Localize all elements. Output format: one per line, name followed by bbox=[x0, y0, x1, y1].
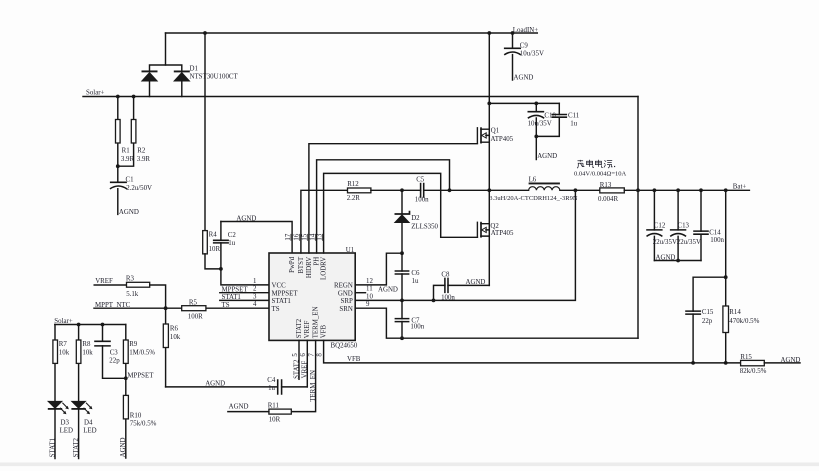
svg-text:VFB: VFB bbox=[347, 356, 361, 363]
wire main vertical Q1 drain / Q2 chain bbox=[488, 33, 490, 285]
op-amp U1 BQ24650 charger IC body bbox=[269, 253, 355, 340]
svg-text:LODRV: LODRV bbox=[321, 257, 328, 280]
wire pin 13 LODRV to Q2 gate bbox=[324, 173, 478, 253]
svg-text:1u: 1u bbox=[570, 121, 577, 128]
svg-text:HIDRV: HIDRV bbox=[306, 257, 313, 278]
wire pin 12 REGN jog to D2/C6 node bbox=[355, 253, 402, 285]
junction C15/VFB bbox=[691, 361, 695, 365]
svg-text:TERM_EN: TERM_EN bbox=[310, 370, 317, 402]
wire pin 16 BTST riser to R12 bbox=[301, 190, 348, 253]
svg-text:AGND: AGND bbox=[119, 209, 139, 216]
pin number 9 bbox=[366, 301, 370, 308]
svg-text:VREF: VREF bbox=[95, 278, 113, 285]
svg-text:10R: 10R bbox=[269, 416, 281, 423]
capacitor C6 (1u) bbox=[395, 253, 420, 300]
pin number 7 (rotated) bbox=[308, 353, 315, 357]
node Solar+ label bbox=[86, 90, 105, 97]
svg-text:22p: 22p bbox=[702, 318, 713, 325]
svg-text:STAT1: STAT1 bbox=[49, 437, 56, 457]
resistor R6 bbox=[163, 308, 180, 387]
wire Solar+ divider line bbox=[55, 324, 126, 326]
node AGND label (R15) bbox=[781, 357, 801, 364]
svg-text:R11: R11 bbox=[268, 403, 280, 410]
svg-text:C6: C6 bbox=[411, 270, 420, 277]
svg-text:D3: D3 bbox=[61, 420, 70, 427]
charge current formula bbox=[574, 170, 626, 177]
svg-text:2.2R: 2.2R bbox=[347, 195, 361, 202]
wire AGND net to pin 17 bbox=[221, 222, 292, 254]
svg-text:Q1: Q1 bbox=[491, 127, 500, 134]
svg-text:ZLLS350: ZLLS350 bbox=[411, 223, 438, 230]
pin 6 VREF name (rotated) bbox=[304, 321, 311, 339]
junction Bat+/SRN riser bbox=[636, 188, 640, 192]
svg-text:3.9R: 3.9R bbox=[137, 156, 151, 163]
node STAT1 label (rotated) bbox=[49, 437, 56, 457]
wire VCC junction to pin 1 bbox=[221, 269, 269, 285]
junction SRP sense at switch line bbox=[574, 188, 578, 192]
wire pin 10 SRP sense line bbox=[355, 190, 575, 300]
svg-text:AGND: AGND bbox=[236, 215, 256, 222]
LED D3 bbox=[48, 401, 73, 434]
LED D4 bbox=[71, 401, 96, 434]
svg-text:82k/0.5%: 82k/0.5% bbox=[740, 368, 767, 375]
wire pin 15 HIDRV to Q1 gate bbox=[309, 144, 478, 253]
pin number 16 (rotated) bbox=[294, 233, 301, 241]
capacitor C11 (1u) bbox=[536, 103, 579, 136]
pin number 1 bbox=[253, 278, 257, 285]
pin 14 PH name (rotated) bbox=[314, 257, 321, 266]
resistor R1 bbox=[116, 97, 135, 167]
svg-text:22u/35V: 22u/35V bbox=[677, 239, 701, 246]
junction Bat+/C14 bbox=[699, 188, 703, 192]
svg-text:AGND: AGND bbox=[656, 254, 676, 261]
svg-text:9: 9 bbox=[366, 301, 370, 308]
resistor R3 bbox=[126, 275, 150, 298]
svg-text:REGN: REGN bbox=[334, 283, 353, 290]
junction Bat+/R14 riser bbox=[724, 188, 728, 192]
capacitor C2 (1u) bbox=[213, 222, 236, 269]
wire D3 cathode to STAT1 bbox=[54, 409, 56, 458]
svg-text:2: 2 bbox=[253, 286, 257, 293]
diode D1 (dual NTST30U100CT), half A bbox=[142, 71, 158, 81]
svg-text:R4: R4 bbox=[209, 232, 218, 239]
svg-text:10k: 10k bbox=[170, 334, 181, 341]
node AGND label (Q2 source / C8) bbox=[466, 279, 486, 286]
wire VREF to R3 bbox=[94, 284, 126, 286]
resistor R10 (75k/0.5%) bbox=[123, 378, 156, 458]
svg-text:0.004R: 0.004R bbox=[598, 196, 619, 203]
svg-text:BTST: BTST bbox=[298, 256, 305, 274]
junction divider/C3 bbox=[101, 323, 105, 327]
svg-text:1: 1 bbox=[253, 278, 257, 285]
resistor R4 bbox=[203, 231, 221, 254]
wire C10/C11 ground stub bbox=[535, 136, 537, 159]
svg-text:5: 5 bbox=[292, 353, 299, 357]
pin 13 LODRV name (rotated) bbox=[321, 257, 328, 280]
svg-text:VFB: VFB bbox=[321, 324, 328, 338]
node VREF label bbox=[95, 278, 113, 285]
svg-text:AGND: AGND bbox=[205, 381, 225, 388]
svg-text:U1: U1 bbox=[346, 247, 355, 254]
svg-text:VCC: VCC bbox=[272, 283, 287, 290]
svg-text:8: 8 bbox=[316, 353, 323, 357]
junction R4/C2/VCC bbox=[219, 267, 223, 271]
wire Solar+ drop / SRN riser at x=638 bbox=[637, 97, 639, 339]
svg-text:6: 6 bbox=[300, 353, 307, 357]
charge current annotation (Chinese) bbox=[577, 160, 615, 168]
diode D2 ZLLS350 bbox=[395, 190, 439, 253]
resistor R7 (10k) bbox=[53, 325, 70, 402]
wire C5 to PH switch node and L6 bbox=[424, 189, 529, 191]
node AGND label (pin 11) bbox=[378, 286, 398, 293]
wire Solar+ rail bbox=[83, 96, 638, 98]
svg-text:3: 3 bbox=[253, 293, 257, 300]
pin 2 MPPSET name bbox=[272, 290, 299, 297]
svg-text:TS: TS bbox=[272, 306, 280, 313]
pin number 10 bbox=[366, 293, 373, 300]
svg-text:7: 7 bbox=[308, 353, 315, 357]
node VFB label bbox=[347, 356, 361, 363]
svg-text:1u: 1u bbox=[268, 385, 275, 392]
resistor R14 (470k/0.5%) bbox=[723, 306, 760, 363]
svg-text:C13: C13 bbox=[678, 222, 690, 229]
svg-text:C9: C9 bbox=[520, 42, 529, 49]
svg-text:AGND: AGND bbox=[537, 153, 557, 160]
pin number 4 bbox=[253, 301, 257, 308]
pin 5 STAT2 name (rotated) bbox=[296, 318, 303, 338]
junction input node bbox=[487, 102, 491, 106]
capacitor C9 (polarized 10u/35V) bbox=[504, 33, 544, 80]
svg-text:LED: LED bbox=[83, 427, 96, 434]
svg-text:SRN: SRN bbox=[339, 306, 352, 313]
svg-text:3.9R: 3.9R bbox=[121, 156, 135, 163]
node AGND label (R6/C4 line) bbox=[205, 381, 225, 388]
svg-text:AGND: AGND bbox=[120, 437, 127, 457]
svg-text:STAT2: STAT2 bbox=[296, 318, 303, 338]
svg-text:STAT1: STAT1 bbox=[222, 294, 242, 301]
capacitor C7 (100n) bbox=[395, 300, 425, 338]
node AGND label (R10, rotated) bbox=[120, 437, 127, 457]
svg-text:100n: 100n bbox=[410, 324, 424, 331]
junction R14/VFB bbox=[724, 361, 728, 365]
svg-text:R3: R3 bbox=[126, 275, 135, 282]
svg-text:470k/0.5%: 470k/0.5% bbox=[729, 318, 759, 325]
svg-text:MPPSET: MPPSET bbox=[222, 287, 249, 294]
svg-text:AGND: AGND bbox=[514, 75, 534, 82]
pin 7 TERM_EN name (rotated) bbox=[313, 307, 320, 339]
wire top rail (D1 cathode common to LoadIN+) bbox=[166, 32, 538, 34]
svg-text:100n: 100n bbox=[415, 197, 429, 204]
junction Solar+/R1 bbox=[116, 95, 120, 99]
svg-text:D1: D1 bbox=[190, 66, 199, 73]
pin 8 VFB name (rotated) bbox=[321, 324, 328, 338]
pin 1 VCC name bbox=[272, 283, 287, 290]
pin number 13 (rotated) bbox=[316, 233, 323, 241]
wire R4 bottom to VCC junction bbox=[205, 254, 221, 269]
wire pin 7 TERM_EN to R11 bbox=[291, 340, 315, 411]
pin 4 TS name bbox=[272, 306, 280, 313]
pin number 11 bbox=[366, 286, 373, 293]
resistor R2 bbox=[118, 97, 151, 167]
pin 3 STAT1 name bbox=[272, 298, 292, 305]
pin number 3 bbox=[253, 293, 257, 300]
resistor R5 bbox=[182, 300, 206, 321]
wire pin 9 SRN jog bbox=[355, 308, 638, 338]
svg-text:VREF: VREF bbox=[302, 361, 309, 379]
svg-text:SRP: SRP bbox=[341, 298, 353, 305]
junction Bat+/C12 bbox=[653, 188, 657, 192]
node AGND label (C10/C11) bbox=[537, 153, 557, 160]
svg-text:AGND: AGND bbox=[229, 404, 249, 411]
capacitor C4 (1u) bbox=[267, 377, 281, 395]
junction R14/C15 top bbox=[724, 275, 728, 279]
svg-text:R13: R13 bbox=[600, 182, 612, 189]
svg-text:C8: C8 bbox=[441, 272, 450, 279]
junction top rail / input node riser bbox=[487, 31, 491, 35]
node Bat+ label bbox=[733, 183, 747, 190]
svg-text:Solar+: Solar+ bbox=[86, 90, 105, 97]
svg-text:1u: 1u bbox=[228, 240, 235, 247]
wire Bat+ riser to R14/C15 bbox=[725, 190, 727, 306]
junction Q1 source / Q2 drain on switch node bbox=[487, 188, 491, 192]
svg-text:5.1k: 5.1k bbox=[126, 291, 139, 298]
svg-text:C10: C10 bbox=[544, 113, 556, 120]
wire AGND bus under C12-C14 bbox=[654, 260, 701, 262]
capacitor C13 (polarized 22u/35V) bbox=[670, 190, 701, 260]
node AGND (below C1) bbox=[119, 209, 139, 216]
junction C10 top bbox=[534, 102, 538, 106]
pin 15 HIDRV name (rotated) bbox=[306, 257, 313, 278]
wire pin 6 VREF to C4 bbox=[306, 340, 308, 387]
svg-text:C11: C11 bbox=[568, 112, 580, 119]
resistor R8 (10k) bbox=[76, 325, 93, 402]
svg-text:22p: 22p bbox=[109, 357, 120, 364]
svg-text:11: 11 bbox=[366, 286, 373, 293]
transistor Q1 ATP405 bbox=[477, 127, 513, 144]
node AGND label (pin17 wire) bbox=[236, 215, 256, 222]
capacitor C3 (22p) bbox=[94, 325, 126, 379]
node MPPT_NTC label bbox=[95, 302, 131, 309]
pin number 8 (rotated) bbox=[316, 353, 323, 357]
svg-text:TERM_EN: TERM_EN bbox=[313, 307, 320, 339]
svg-text:100n: 100n bbox=[441, 294, 455, 301]
junction REGN/D2/C6 bbox=[400, 251, 404, 255]
svg-text:R12: R12 bbox=[347, 181, 359, 188]
junction divider/R8 bbox=[77, 323, 81, 327]
wire R15 to AGND stub bbox=[764, 362, 800, 364]
svg-text:ATP405: ATP405 bbox=[491, 230, 514, 237]
svg-text:10R: 10R bbox=[209, 246, 221, 253]
svg-text:Bat+: Bat+ bbox=[733, 183, 747, 190]
wire MPPT_NTC line bbox=[94, 307, 269, 309]
wire pin 8 VFB line bbox=[324, 340, 741, 363]
svg-text:R14: R14 bbox=[729, 309, 741, 316]
svg-text:C2: C2 bbox=[228, 232, 237, 239]
svg-text:LED: LED bbox=[60, 427, 73, 434]
svg-text:C15: C15 bbox=[702, 309, 714, 316]
transistor Q2 ATP405 bbox=[477, 222, 514, 238]
svg-text:AGND: AGND bbox=[466, 279, 486, 286]
svg-text:10u/35V: 10u/35V bbox=[528, 121, 552, 128]
svg-text:22u/35V: 22u/35V bbox=[653, 239, 677, 246]
svg-text:R1: R1 bbox=[122, 148, 131, 155]
svg-text:L6: L6 bbox=[529, 176, 537, 183]
capacitor C10 (polarized 10u/35V) bbox=[528, 103, 557, 136]
svg-text:R7: R7 bbox=[59, 341, 68, 348]
svg-text:PwPd: PwPd bbox=[289, 256, 296, 273]
svg-text:C14: C14 bbox=[709, 229, 721, 236]
svg-text:R9: R9 bbox=[129, 341, 138, 348]
resistor R12 bbox=[347, 181, 371, 202]
node Solar+ label (divider) bbox=[54, 318, 73, 325]
inductor L6 bbox=[489, 176, 578, 202]
wire R3 right down to MPPT node bbox=[150, 285, 166, 308]
junction top rail / R4 riser bbox=[203, 31, 207, 35]
wire MPPSET stub pin 2 bbox=[220, 292, 269, 294]
svg-text:PH: PH bbox=[314, 257, 321, 266]
svg-text:MPPSET: MPPSET bbox=[272, 290, 299, 297]
junction Solar+/R2 bbox=[132, 95, 136, 99]
svg-text:R6: R6 bbox=[170, 325, 179, 332]
wire input node line to C10/C11 bbox=[489, 102, 559, 104]
node STAT2 label (rotated) bbox=[73, 437, 80, 457]
svg-text:R2: R2 bbox=[137, 148, 146, 155]
svg-text:R5: R5 bbox=[189, 300, 198, 307]
svg-text:C5: C5 bbox=[416, 176, 425, 183]
junction R3/R6/MPPT line bbox=[164, 306, 168, 310]
junction C8/SRP bbox=[432, 299, 436, 303]
wire D1 cathode bridge bbox=[150, 65, 182, 71]
pin number 12 bbox=[366, 278, 373, 285]
svg-text:D2: D2 bbox=[411, 215, 420, 222]
pin number 14 (rotated) bbox=[309, 233, 316, 241]
svg-text:3.3uH/20A-CTCDRH124_-3R9N: 3.3uH/20A-CTCDRH124_-3R9N bbox=[489, 195, 578, 202]
junction MPPSET node bbox=[124, 376, 128, 380]
junction C13/AGND bus bbox=[676, 259, 680, 263]
resistor R13 (0.004R sense) bbox=[598, 182, 624, 203]
junction PH jog / switch node bbox=[448, 188, 452, 192]
diode D1 half B bbox=[174, 71, 190, 81]
svg-text:AGND: AGND bbox=[378, 286, 398, 293]
capacitor C1 (polarized 2.2u/50V) bbox=[110, 166, 152, 214]
junction R1/R2/C1 bbox=[116, 164, 120, 168]
wire AGND / C4 line bbox=[166, 386, 308, 388]
node AGND label (R11) bbox=[229, 404, 249, 411]
svg-text:10u/35V: 10u/35V bbox=[520, 50, 544, 57]
svg-text:VREF: VREF bbox=[304, 321, 311, 339]
junction Bat+/C13 bbox=[676, 188, 680, 192]
svg-text:10: 10 bbox=[366, 293, 373, 300]
svg-text:BQ24650: BQ24650 bbox=[331, 342, 358, 349]
svg-text:C4: C4 bbox=[267, 377, 276, 384]
svg-text:1u: 1u bbox=[412, 278, 419, 285]
bottom window edge strip bbox=[0, 463, 819, 467]
wire C15 branch top bbox=[693, 277, 726, 311]
wire vertical rail down to D1 common cathode bridge bbox=[165, 33, 167, 65]
pin number 17 (rotated) bbox=[285, 233, 292, 241]
resistor R11 (10R) bbox=[268, 403, 292, 424]
svg-text:2.2u/50V: 2.2u/50V bbox=[126, 185, 152, 192]
wire R12 to C5 bbox=[371, 189, 421, 191]
node VREF label (rotated) bbox=[302, 361, 309, 379]
junction C10/C11 bottom bbox=[534, 135, 538, 139]
pin 16 BTST name (rotated) bbox=[298, 256, 305, 274]
wire D4 cathode to STAT2 bbox=[78, 409, 80, 458]
svg-text:ATP405: ATP405 bbox=[491, 136, 514, 143]
pin 17 PwPd name (rotated) bbox=[289, 256, 296, 273]
svg-text:4: 4 bbox=[253, 301, 257, 308]
junction C9 tap bbox=[511, 31, 515, 35]
node STAT1 label bbox=[222, 294, 242, 301]
svg-text:100R: 100R bbox=[188, 313, 203, 320]
node MPPSET label bbox=[222, 287, 249, 294]
pin number 5 (rotated) bbox=[292, 353, 299, 357]
node TS label bbox=[222, 302, 230, 309]
pin 9 SRN name bbox=[339, 306, 352, 313]
svg-text:R15: R15 bbox=[740, 354, 752, 361]
svg-text:C3: C3 bbox=[110, 349, 119, 356]
svg-text:C12: C12 bbox=[654, 222, 666, 229]
node TERM_EN label (rotated) bbox=[310, 370, 317, 402]
wire D1B anode to Solar+ rail bbox=[181, 81, 183, 96]
wire D1A anode to Solar+ rail bbox=[149, 81, 151, 96]
node AGND label (C9) bbox=[514, 75, 534, 82]
wire STAT1 stub pin 3 bbox=[220, 299, 269, 301]
svg-text:NTST30U100CT: NTST30U100CT bbox=[190, 74, 239, 81]
resistor R15 (82k/0.5%) bbox=[740, 354, 767, 375]
svg-text:Q2: Q2 bbox=[490, 223, 499, 230]
node STAT2 label (rotated) bbox=[293, 359, 300, 379]
svg-text:75k/0.5%: 75k/0.5% bbox=[130, 421, 157, 428]
pin 10 SRP name bbox=[341, 298, 353, 305]
svg-text:C1: C1 bbox=[126, 177, 135, 184]
capacitor C14 (100n) bbox=[693, 190, 724, 260]
wire pin 14 PH jog to switch node bbox=[317, 160, 450, 253]
junction C7/SRN bbox=[400, 336, 404, 340]
svg-text:10k: 10k bbox=[82, 349, 93, 356]
svg-text:D4: D4 bbox=[84, 420, 93, 427]
svg-text:STAT2: STAT2 bbox=[293, 359, 300, 379]
svg-text:STAT2: STAT2 bbox=[73, 437, 80, 457]
wire R13 to Bat+ bbox=[624, 189, 749, 191]
resistor R9 (1M/0.5%) bbox=[123, 325, 155, 379]
pin 11 GND name bbox=[338, 290, 353, 297]
pin number 6 (rotated) bbox=[300, 353, 307, 357]
svg-text:MPPSET: MPPSET bbox=[127, 373, 154, 380]
wire R11 to AGND stub bbox=[228, 411, 269, 413]
svg-text:GND: GND bbox=[338, 290, 353, 297]
capacitor C12 (polarized 22u/35V) bbox=[646, 190, 677, 260]
wire riser from top rail down to R4 bbox=[204, 33, 206, 231]
svg-text:R8: R8 bbox=[82, 341, 91, 348]
wire L6 to R13 bbox=[560, 189, 600, 191]
svg-text:100n: 100n bbox=[710, 237, 724, 244]
svg-text:AGND: AGND bbox=[781, 357, 801, 364]
svg-text:STAT1: STAT1 bbox=[272, 298, 292, 305]
pin 12 REGN name bbox=[334, 283, 353, 290]
svg-text:0.04V/0.004Ω=10A: 0.04V/0.004Ω=10A bbox=[574, 170, 626, 177]
pin number 2 bbox=[253, 286, 257, 293]
node LoadIN+ label bbox=[513, 27, 538, 34]
svg-text:12: 12 bbox=[366, 278, 373, 285]
capacitor C5 (100n bootstrap) bbox=[415, 176, 429, 203]
capacitor C8 (100n) with leads bbox=[434, 272, 490, 302]
node MPPSET label (divider) bbox=[127, 373, 154, 380]
junction C6/C7/SRP bbox=[400, 299, 404, 303]
wire pin 5 STAT2 stub bbox=[298, 340, 300, 379]
pin number 15 (rotated) bbox=[302, 233, 309, 241]
wire pin 11 GND stub bbox=[355, 292, 365, 294]
